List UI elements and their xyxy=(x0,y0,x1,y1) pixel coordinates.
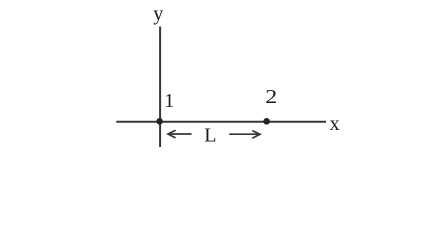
svg-text:y: y xyxy=(153,3,163,25)
svg-text:x: x xyxy=(330,113,340,135)
svg-text:2: 2 xyxy=(265,85,277,108)
svg-text:L: L xyxy=(204,125,216,147)
svg-text:1: 1 xyxy=(164,90,174,112)
